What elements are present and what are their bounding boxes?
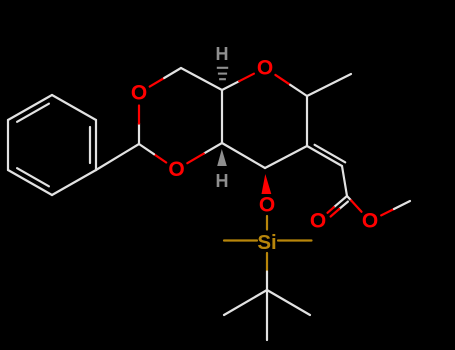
bond C5-O5 <box>222 81 239 90</box>
hashed wedge C5-H (top stereocenter) <box>217 67 228 69</box>
ester C=O double bond second line <box>339 202 348 209</box>
svg-text:O: O <box>168 158 184 181</box>
bond C2-O1 <box>138 124 140 144</box>
ester C=O double bond main line <box>334 196 347 207</box>
bond C4-O3 <box>204 143 222 154</box>
bold wedge C3-O (OTBS) <box>262 174 272 194</box>
double bond C2'=CH second line <box>315 145 346 163</box>
benzene ring edge E-F <box>7 120 9 170</box>
double bond C2'=CH main line <box>307 146 342 166</box>
bond C2'-C3 <box>265 146 307 168</box>
benzene inner double line F-A <box>17 104 49 122</box>
svg-text:H: H <box>216 171 229 191</box>
svg-text:O: O <box>131 82 147 105</box>
benzene ring edge F-A (double) <box>8 95 52 120</box>
svg-text:H: H <box>216 44 229 64</box>
bond ester C - O single <box>347 196 351 200</box>
svg-text:O: O <box>310 210 326 233</box>
bond C1-CH3 <box>307 74 351 96</box>
bond O1-C6 <box>150 78 165 87</box>
bond O3-C2 <box>154 154 166 162</box>
bond O-CH3 (methyl ester) <box>381 209 394 215</box>
svg-text:O: O <box>257 57 273 80</box>
bond Si-C(tBu) <box>266 253 268 272</box>
bond C6-C5 <box>181 68 222 90</box>
benzene ring edge B-C (double) <box>95 120 97 170</box>
svg-text:O: O <box>362 210 378 233</box>
svg-text:O: O <box>259 194 275 217</box>
bold wedge C4-H (bottom stereocenter) <box>217 149 227 166</box>
bond tBu C-CH3 down <box>266 290 268 340</box>
benzene inner double line B-C <box>89 127 91 163</box>
bond CH=C to ester carbonyl C <box>342 166 347 196</box>
bond O5-C1 <box>275 75 290 85</box>
benzene inner double line D-E <box>17 168 49 186</box>
bond tBu C-CH3 left <box>224 290 267 315</box>
benzene ring edge A-B <box>52 95 96 120</box>
bond C3-C4 <box>222 143 265 168</box>
bond Si-CH3 left <box>224 239 257 241</box>
bond C1-C2' <box>306 96 308 146</box>
bond C5-C4 (ring fusion) <box>221 90 223 143</box>
bond tBu C-CH3 right <box>267 290 310 315</box>
benzene ring edge D-E (double) <box>8 170 52 195</box>
svg-text:Si: Si <box>257 231 276 254</box>
bond Si-CH3 right <box>278 239 312 241</box>
benzene ring edge C-D <box>52 170 96 195</box>
bond phenyl-C2 (benzylidene CH) <box>96 144 139 170</box>
bond O-Si <box>266 216 268 230</box>
